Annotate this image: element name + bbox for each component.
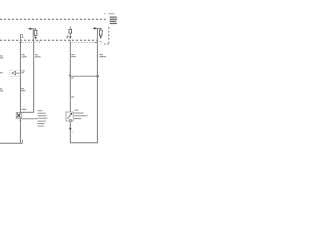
wire drop from left bus (32, 29, 34, 40)
wire 1 colour label (22, 54, 25, 55)
label below bridge (71, 78, 74, 79)
connector C1 dotted line left segment (20, 42, 37, 44)
node junction dot right bus (94, 27, 96, 29)
fuse block boundary top dashed line (0, 18, 106, 20)
wire 2 colour label (35, 54, 38, 55)
connector C1 solid tick at wire 4 (94, 42, 98, 44)
ground leader line (21, 118, 37, 120)
horn component box (66, 112, 73, 121)
node junction dot on wire 4 (97, 75, 99, 77)
connector tick label (72, 131, 73, 133)
label right of triangle connector (22, 70, 25, 71)
cavity arrow under fuse F12 (99, 36, 102, 39)
fuse F9 amperage label (66, 36, 69, 37)
bottom left wire to page edge (0, 142, 23, 144)
connector tick on wire 1 (19, 42, 22, 44)
stub up at end of bottom left wire (22, 140, 24, 143)
splice arrow into wire 3 (68, 75, 70, 77)
fuse F12 right (100, 28, 102, 30)
cavity arrow under fuse F2 (34, 37, 37, 40)
fuse block boundary right dashed edge (108, 27, 110, 44)
wire 2 vertical (33, 40, 35, 112)
wire 3 splice label (71, 96, 74, 97)
node junction dot left bus (30, 28, 32, 30)
bottom wire from wire 3 to wire 4 (70, 142, 98, 144)
tick below splice (19, 120, 21, 122)
fuse F2 left (35, 29, 37, 31)
fuse block label text (104, 12, 106, 15)
fuse block boundary bottom-right dashed tick (104, 43, 109, 45)
horn component text (74, 110, 78, 111)
wire 4 vertical (96, 28, 98, 142)
wire 2 bend to splice (21, 111, 34, 113)
inline connector arrow on wire 3 (69, 128, 72, 131)
wire 1 vertical (19, 40, 21, 113)
bus wire left cluster (28, 28, 36, 30)
ground description text block (38, 110, 43, 111)
connector flag on wire 1 (20, 34, 22, 37)
wire 3 vertical (69, 40, 71, 112)
wire 4 colour label (99, 54, 102, 55)
wire 1 below splice (19, 118, 21, 143)
connector C1 dotted line right segment (72, 42, 98, 44)
wire 1 label row 2 (21, 88, 24, 89)
left edge wire label row 3 (0, 88, 2, 89)
wire 3 below horn (69, 121, 71, 143)
connector bracket label right of wire 2 (37, 41, 40, 44)
fuse block boundary bottom dashed line (0, 39, 97, 41)
bridge wire between wire 3 and wire 4 (70, 75, 97, 77)
left edge wire label row 2 (0, 72, 3, 73)
wire 3 colour label (71, 54, 74, 55)
inline connector triangle on wire 1 (10, 70, 20, 76)
left edge wire label row 1 (0, 55, 3, 56)
connector bracket label right of wire 4 (99, 41, 101, 44)
bus wire right cluster (93, 27, 101, 29)
splice S338 label (22, 109, 26, 110)
splice box with X (16, 113, 21, 119)
cavity arrow under fuse F9 (69, 36, 72, 39)
fuse F9 middle top stub (69, 26, 71, 29)
